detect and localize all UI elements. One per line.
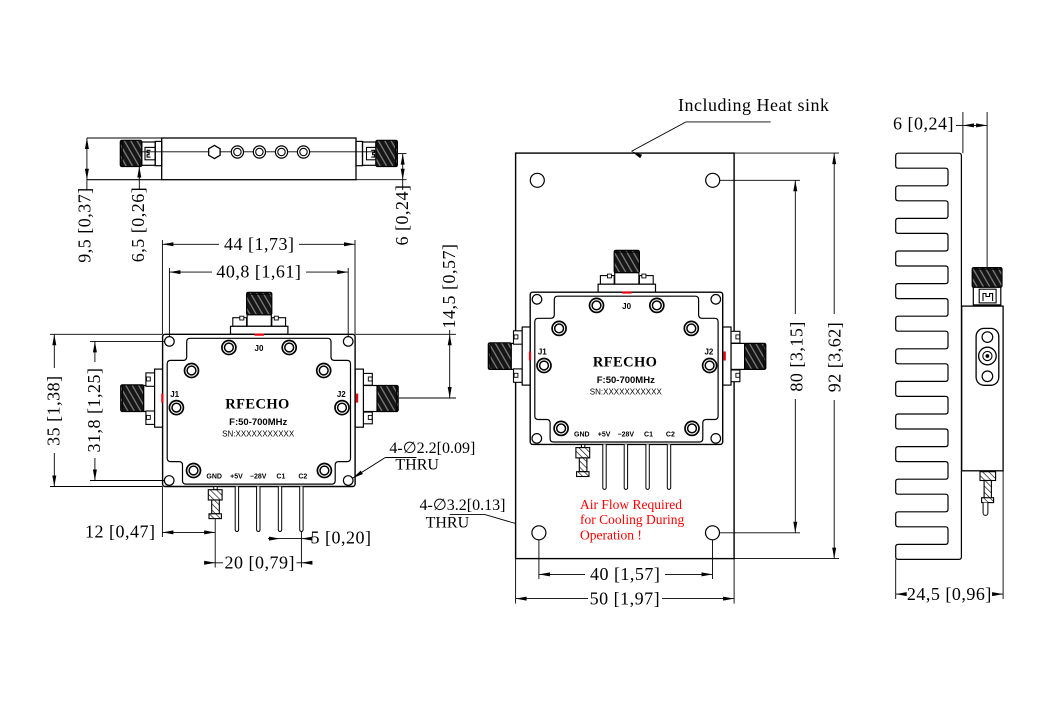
svg-text:24,5 [0,96]: 24,5 [0,96] <box>907 584 992 604</box>
svg-text:C1: C1 <box>276 474 285 481</box>
dimension 9,5 [0,37] <box>86 138 88 190</box>
svg-text:J0: J0 <box>622 302 631 311</box>
dimension 31,8 [1,25] <box>90 340 164 342</box>
dimension 44 [1,73] <box>161 240 163 334</box>
dimension 50 [1,97] <box>515 559 517 604</box>
svg-text:C2: C2 <box>666 432 675 439</box>
top view C2 feedthrough insulator <box>297 146 309 158</box>
svg-text:GND: GND <box>574 432 590 439</box>
svg-text:6 [0,24]: 6 [0,24] <box>893 113 954 133</box>
right view module body <box>962 306 1003 471</box>
center view red index marks <box>622 291 632 293</box>
top view -28V feedthrough insulator <box>253 146 265 158</box>
svg-text:J1: J1 <box>538 348 547 357</box>
top view +5V feedthrough insulator <box>231 146 243 158</box>
center view J1 connector <box>488 343 511 370</box>
top view module body <box>162 138 356 180</box>
svg-text:for Cooling During: for Cooling During <box>580 512 684 527</box>
svg-text:Operation !: Operation ! <box>580 527 642 542</box>
dimension 14,5 [0,57] <box>355 333 456 335</box>
dimension 92 [3,62] <box>734 152 839 154</box>
top view J1 connector flange <box>155 141 162 165</box>
front view red index marks <box>255 334 265 336</box>
top view body edge extension lines to 9,5 dim <box>87 137 162 139</box>
svg-text:C2: C2 <box>298 474 307 481</box>
front view body <box>163 334 356 486</box>
dimension 80 [3,15] <box>720 179 801 181</box>
svg-text:THRU: THRU <box>426 515 470 532</box>
svg-text:GND: GND <box>206 474 222 481</box>
dimension 6 [0,24] top view <box>402 154 404 190</box>
svg-text:31,8 [1,25]: 31,8 [1,25] <box>84 368 104 453</box>
front view J1 connector <box>121 385 144 412</box>
svg-text:J2: J2 <box>704 348 713 357</box>
front view J2 connector <box>377 386 398 412</box>
svg-text:4-∅3.2[0.13]: 4-∅3.2[0.13] <box>420 497 506 514</box>
svg-text:6,5 [0,26]: 6,5 [0,26] <box>128 187 148 263</box>
top view J1 connector threads <box>120 140 142 166</box>
center view cover screws 8x <box>590 298 604 312</box>
dimension 35 [1,38] <box>50 333 163 335</box>
svg-text:5 [0,20]: 5 [0,20] <box>311 527 372 547</box>
svg-text:44 [1,73]: 44 [1,73] <box>224 234 295 254</box>
center view signal pins 4x <box>603 444 606 489</box>
center view body <box>530 292 723 444</box>
svg-text:6 [0,24]: 6 [0,24] <box>392 185 412 246</box>
right view top SMA connector <box>972 268 1002 288</box>
heat sink mounting plate <box>516 153 735 558</box>
svg-text:+5V: +5V <box>230 474 243 481</box>
front view cover plate <box>167 338 350 484</box>
top view C1 feedthrough insulator <box>275 146 287 158</box>
top view J2 connector threads <box>376 140 398 166</box>
center view GND pin <box>581 444 584 447</box>
svg-text:F:50-700MHz: F:50-700MHz <box>229 417 287 428</box>
plate mounting holes 4x <box>530 173 544 187</box>
svg-text:12 [0,47]: 12 [0,47] <box>85 522 156 542</box>
top view GND feedthrough hex nut <box>209 145 220 158</box>
dimension 40,8 [1,61] <box>168 268 170 336</box>
svg-text:−28V: −28V <box>618 432 635 439</box>
dimension 40 [1,57] <box>538 540 540 579</box>
svg-text:RFECHO: RFECHO <box>225 397 289 413</box>
dimension 6,5 [0,26] <box>138 163 140 190</box>
svg-text:14,5 [0,57]: 14,5 [0,57] <box>439 244 459 329</box>
svg-text:Including Heat sink: Including Heat sink <box>678 95 829 115</box>
svg-text:9,5 [0,37]: 9,5 [0,37] <box>75 187 95 263</box>
front view signal pins 4x <box>235 487 238 532</box>
heat sink fins profile <box>896 153 962 559</box>
svg-text:+5V: +5V <box>598 432 611 439</box>
svg-text:50 [1,97]: 50 [1,97] <box>590 588 661 608</box>
svg-text:RFECHO: RFECHO <box>593 355 657 371</box>
front view cover screws 8x <box>222 341 236 355</box>
center view corner mounting holes 4x <box>532 295 542 305</box>
svg-text:−28V: −28V <box>250 474 267 481</box>
dimension 12 [0,47] <box>161 487 163 538</box>
svg-text:80 [3,15]: 80 [3,15] <box>786 321 806 392</box>
center view J0 connector <box>614 250 639 273</box>
svg-text:92 [3,62]: 92 [3,62] <box>825 322 845 393</box>
svg-text:F:50-700MHz: F:50-700MHz <box>597 375 655 386</box>
top view J2 connector flange <box>356 141 363 165</box>
svg-text:40,8 [1,61]: 40,8 [1,61] <box>216 262 301 282</box>
top view J1 connector hex nut <box>142 142 155 165</box>
dimension 5 [0,20] <box>268 538 280 540</box>
svg-text:J0: J0 <box>255 344 264 353</box>
center view J2 connector <box>745 343 766 369</box>
svg-text:20 [0,79]: 20 [0,79] <box>225 553 296 573</box>
dimension 20 [0,79] <box>300 532 302 568</box>
svg-text:SN:XXXXXXXXXXX: SN:XXXXXXXXXXX <box>590 388 663 397</box>
svg-text:C1: C1 <box>644 432 653 439</box>
front view GND pin <box>214 487 217 490</box>
svg-text:40 [1,57]: 40 [1,57] <box>590 564 661 584</box>
svg-text:35 [1,38]: 35 [1,38] <box>44 375 64 446</box>
dimension 24,5 [0,96] <box>895 559 897 599</box>
svg-text:J1: J1 <box>170 390 179 399</box>
top view centerline through pins <box>140 151 380 153</box>
svg-text:THRU: THRU <box>395 456 439 473</box>
svg-text:SN:XXXXXXXXXXX: SN:XXXXXXXXXXX <box>222 430 295 439</box>
svg-text:Air Flow Required: Air Flow Required <box>580 497 682 512</box>
svg-text:4-∅2.2[0.09]: 4-∅2.2[0.09] <box>389 440 475 457</box>
svg-text:J2: J2 <box>337 390 346 399</box>
front view J0 connector <box>247 292 272 315</box>
right view connector face plate <box>976 328 999 385</box>
front view corner mounting holes 4x <box>165 337 175 347</box>
top view J2 connector hex nut <box>363 142 376 165</box>
right view GND pin <box>980 472 996 481</box>
center view cover plate <box>535 296 718 442</box>
